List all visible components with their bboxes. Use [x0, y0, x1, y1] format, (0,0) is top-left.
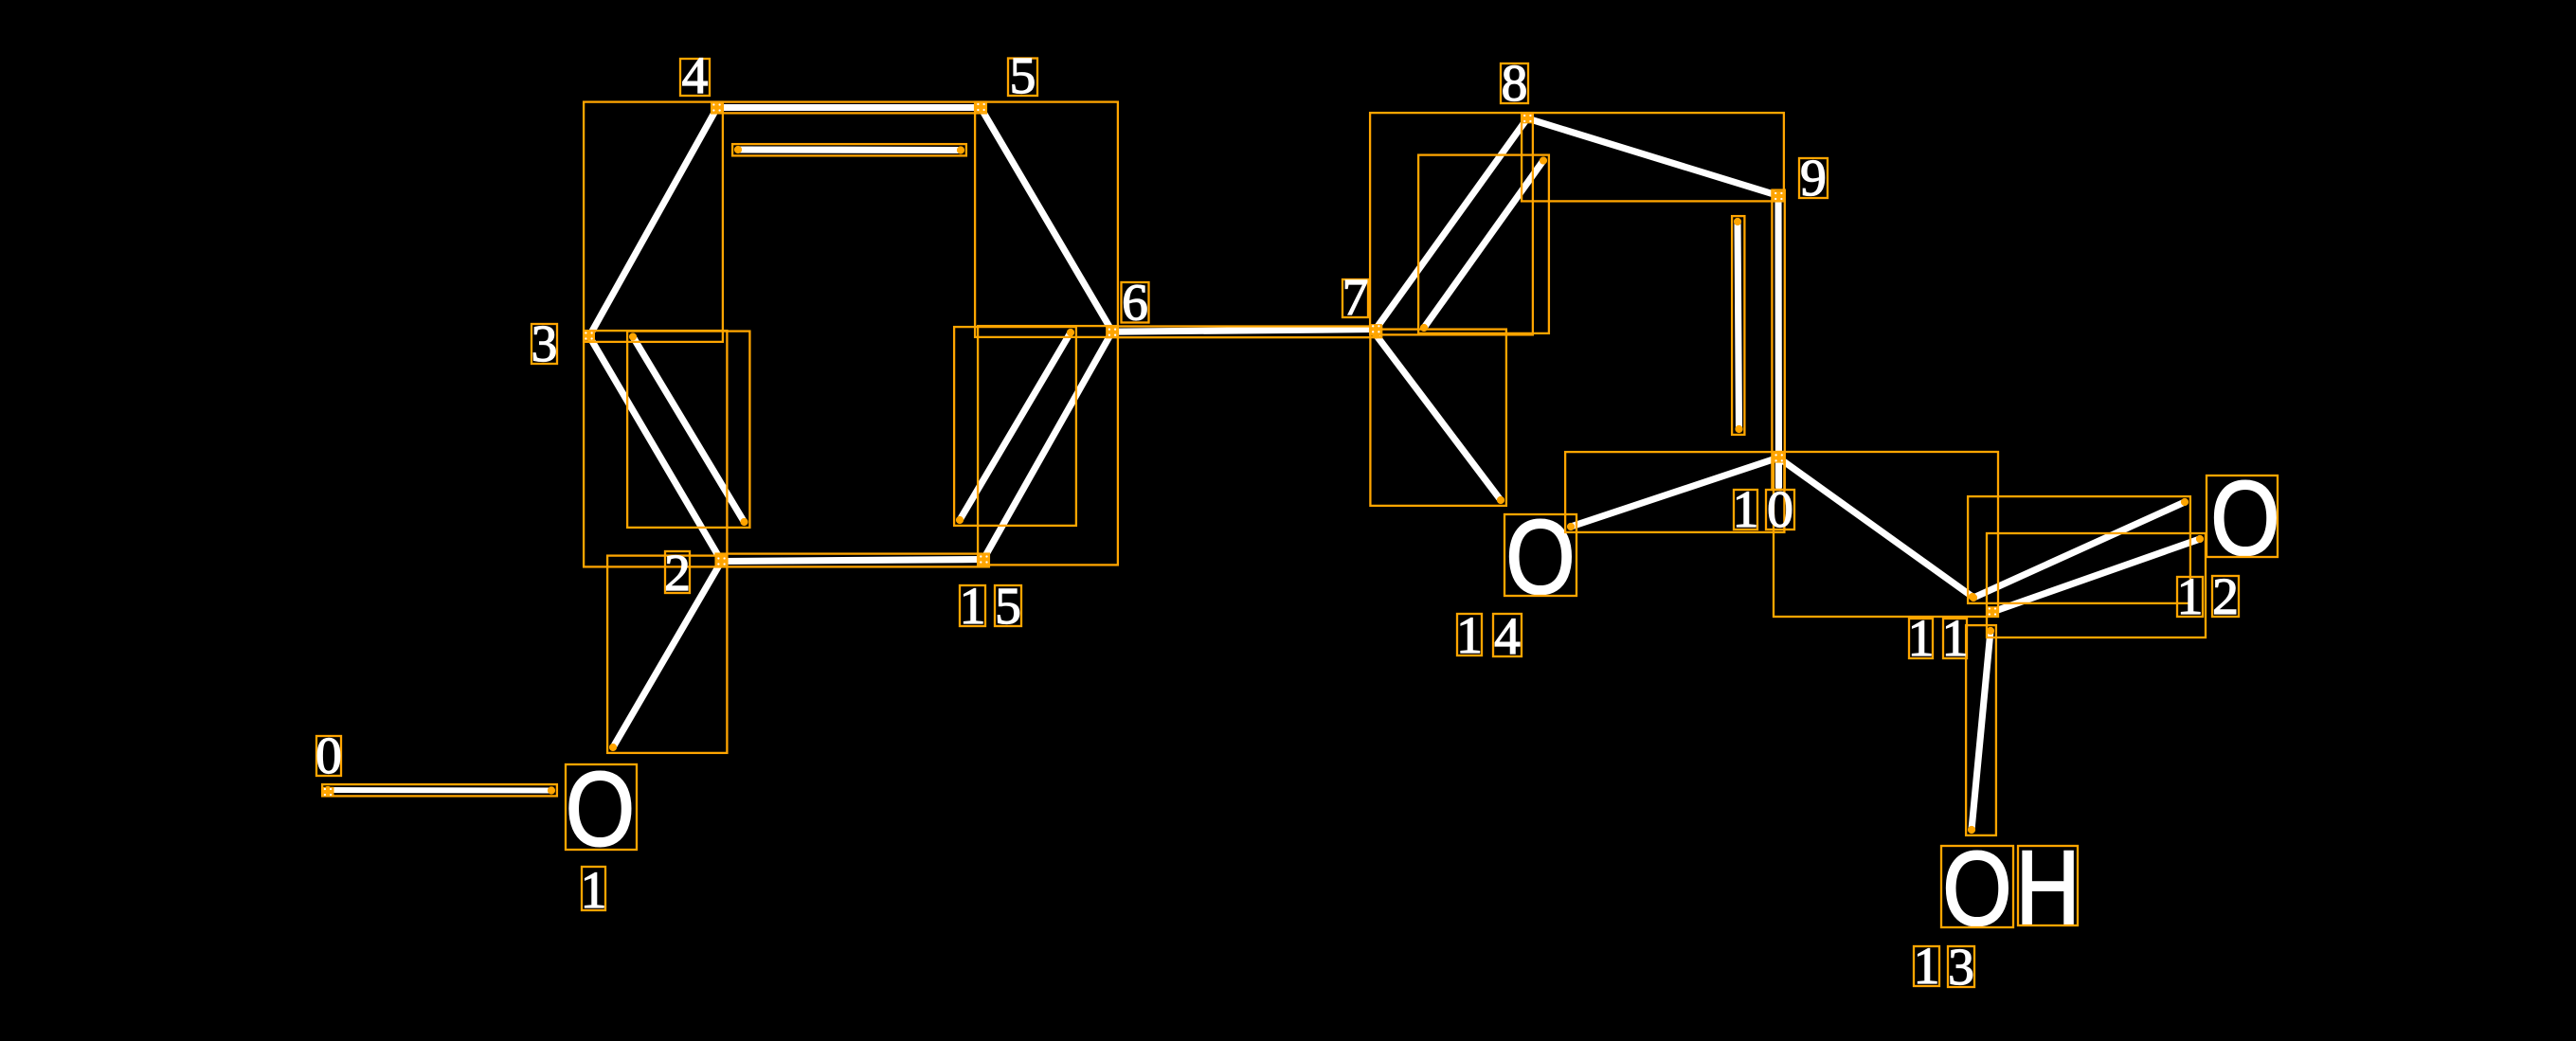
atom 11 marker: [1986, 606, 1998, 617]
svg-text:1: 1: [1733, 481, 1759, 539]
svg-text:1: 1: [581, 862, 607, 920]
bond 11=O12 upper line (C=O) : orange bounding box: [1968, 496, 2190, 603]
bond 7-8 main line (furan double bond) : endpoint dots: [1372, 325, 1379, 332]
bond 8-9 (furan single bond) : endpoint dots: [1523, 115, 1531, 122]
atom 0 (methyl C) marker: [322, 787, 334, 798]
bond 10-O14 (furan C-O bond) : endpoint dots: [1774, 454, 1782, 461]
atom 3 marker: [583, 331, 595, 341]
index label 5: [1008, 59, 1037, 97]
bond 2-15 (aromatic single bond) : orange bounding box: [716, 554, 989, 567]
index label 11: [1909, 619, 1933, 658]
atom 10 marker: [1773, 453, 1785, 463]
bond 10-O14 (furan C-O bond) : white line: [1571, 458, 1779, 527]
bond 11-OH (C-OH single bond) : white line: [1972, 631, 1991, 830]
bond 3-4 (aromatic single bond) : orange bounding box: [584, 102, 723, 342]
bond 7-8 inner line : white line: [1424, 161, 1543, 329]
svg-text:8: 8: [1502, 55, 1528, 113]
bond 11=O12 lower line (C=O) : orange bounding box: [1987, 533, 2206, 637]
bond 11=O12 lower line (C=O) : white line: [1992, 539, 2200, 612]
atom 15 marker: [978, 554, 990, 565]
svg-text:1: 1: [1456, 607, 1483, 665]
bond 8-9 (furan single bond) : orange bounding box: [1522, 113, 1784, 201]
bond 5-6 (aromatic single bond) : orange bounding box: [975, 102, 1118, 337]
bond 11=O12 lower line (C=O) : endpoint dots: [1989, 608, 1996, 616]
atom 14 label O (furan oxygen) : orange bounding box: [1504, 514, 1576, 596]
atom 2 marker: [715, 556, 728, 566]
bond 4-5 main line (aromatic double bond) : endpoint dots: [713, 103, 721, 111]
bond 5-6 (aromatic single bond) : endpoint dots: [977, 103, 984, 111]
index label 14: [1457, 614, 1482, 655]
atom 13 label H of OH (hydroxyl) : orange bounding box: [2018, 846, 2078, 925]
bond 7-8 main line (furan double bond) : white line: [1376, 118, 1527, 330]
index label 7: [1342, 279, 1368, 317]
bond 2-3 main line (aromatic double bond) : endpoint dots: [585, 332, 593, 340]
bond 9-10 inner line : white line: [1738, 222, 1739, 429]
bond 0-1 (CH3-O single bond) : endpoint dots: [324, 786, 332, 794]
svg-text:1: 1: [960, 578, 986, 636]
bond 2-3 main line (aromatic double bond) : white line: [589, 336, 722, 562]
bond 6-15 main line (aromatic double bond) : white line: [983, 332, 1112, 560]
svg-text:5: 5: [995, 578, 1021, 636]
svg-text:4: 4: [682, 47, 709, 105]
index label 0: [316, 736, 341, 776]
bond 2-3 inner line : white line: [633, 337, 745, 523]
index label 8: [1501, 63, 1528, 103]
bond 9-10 main line (furan double bond) : orange bounding box: [1772, 190, 1784, 490]
svg-text:1: 1: [1908, 610, 1935, 668]
index label 10: [1734, 490, 1757, 529]
index label 4: [680, 59, 710, 96]
bond 4-5 inner line : white line: [738, 146, 961, 153]
bond 2-3 inner line : orange bounding box: [627, 332, 749, 528]
svg-text:2: 2: [664, 545, 691, 602]
svg-text:6: 6: [1122, 275, 1148, 332]
index label 1: [582, 867, 605, 910]
svg-text:O: O: [1942, 830, 2011, 947]
bond 7-8 inner line : orange bounding box: [1418, 155, 1549, 333]
bond 10-11 (C-C single bond) : endpoint dots: [1774, 454, 1782, 461]
bond 2-3 main line (aromatic double bond) : orange bounding box: [584, 331, 727, 566]
bond 4-5 main line (aromatic double bond) : white line: [717, 104, 981, 111]
bond 11-OH (C-OH single bond) : endpoint dots: [1987, 627, 1994, 635]
bond 4-5 inner line : orange bounding box: [732, 144, 966, 155]
atom 4 marker: [711, 102, 723, 113]
atom 5 marker: [975, 102, 987, 113]
index label 3: [531, 324, 557, 364]
bond 6-15 inner line : white line: [960, 332, 1071, 520]
svg-text:0: 0: [1767, 481, 1793, 539]
svg-text:3: 3: [1948, 939, 1974, 996]
svg-text:1: 1: [1914, 938, 1940, 996]
svg-text:O: O: [2210, 459, 2279, 577]
bond 10-O14 (furan C-O bond) : orange bounding box: [1565, 452, 1784, 532]
bond 1-2 (O-C aryl single bond) : endpoint dots: [717, 557, 725, 565]
bond 9-10 main line (furan double bond) : endpoint dots: [1774, 191, 1782, 199]
svg-text:3: 3: [531, 315, 558, 373]
atom 12 label O (carbonyl oxygen) : orange bounding box: [2207, 476, 2278, 557]
atom 9 marker: [1773, 191, 1785, 202]
bond 2-3 inner line : endpoint dots: [629, 332, 637, 340]
atom 8 marker: [1522, 114, 1534, 124]
bond 2-15 (aromatic single bond) : endpoint dots: [717, 557, 725, 565]
bond 9-10 inner line : orange bounding box: [1732, 216, 1744, 435]
bond 6-7 (biaryl single bond) : endpoint dots: [1108, 328, 1116, 335]
bond 7-8 main line (furan double bond) : orange bounding box: [1370, 113, 1533, 334]
bond 3-4 (aromatic single bond) : endpoint dots: [585, 332, 593, 340]
index label 15: [960, 585, 985, 626]
bond 8-9 (furan single bond) : white line: [1527, 118, 1778, 196]
bond 6-15 main line (aromatic double bond) : orange bounding box: [978, 326, 1118, 565]
index label 9: [1799, 158, 1828, 198]
bond 0-1 (CH3-O single bond) : white line: [328, 787, 551, 794]
svg-text:1: 1: [1942, 610, 1969, 668]
bond O14-7 (furan O-C bond) : endpoint dots: [1497, 496, 1504, 504]
index label 2: [665, 551, 690, 593]
svg-text:5: 5: [1010, 47, 1036, 105]
bond 9-10 inner line : endpoint dots: [1734, 218, 1741, 225]
bond 7-8 inner line : endpoint dots: [1420, 324, 1428, 332]
svg-text:0: 0: [315, 727, 342, 785]
svg-text:7: 7: [1342, 269, 1369, 327]
atom 7 marker: [1370, 324, 1382, 334]
index label 12: [2177, 577, 2203, 617]
svg-text:2: 2: [2212, 568, 2239, 626]
atom 6 marker: [1107, 327, 1119, 337]
bond 10-11 (C-C single bond) : white line: [1779, 458, 1973, 597]
atom 1 label O (ether oxygen) : orange bounding box: [566, 764, 637, 850]
bond O14-7 (furan O-C bond) : orange bounding box: [1370, 330, 1506, 506]
bond 6-15 inner line : orange bounding box: [954, 327, 1076, 526]
svg-text:1: 1: [2177, 568, 2204, 626]
index label 6: [1122, 282, 1149, 323]
bond 4-5 main line (aromatic double bond) : orange bounding box: [712, 102, 986, 114]
bond 11=O12 upper line (C=O) : endpoint dots: [1970, 594, 1977, 601]
bond 11-OH (C-OH single bond) : orange bounding box: [1966, 625, 1996, 835]
bond 3-4 (aromatic single bond) : white line: [589, 108, 717, 337]
bond 4-5 inner line : endpoint dots: [734, 146, 742, 153]
bond 2-15 (aromatic single bond) : white line: [722, 560, 984, 562]
bond 6-15 main line (aromatic double bond) : endpoint dots: [1108, 328, 1116, 335]
svg-text:9: 9: [1800, 150, 1827, 207]
atom 13 label O of OH (hydroxyl) : orange bounding box: [1941, 846, 2013, 927]
bond 5-6 (aromatic single bond) : white line: [981, 108, 1112, 332]
bond 1-2 (O-C aryl single bond) : white line: [613, 562, 722, 748]
bond 6-7 (biaryl single bond) : white line: [1112, 330, 1376, 332]
bond 0-1 (CH3-O single bond) : orange bounding box: [322, 784, 557, 796]
bond 1-2 (O-C aryl single bond) : orange bounding box: [607, 556, 727, 753]
bond 11=O12 upper line (C=O) : white line: [1973, 502, 2185, 598]
bond 9-10 main line (furan double bond) : white line: [1774, 196, 1782, 488]
bond 10-11 (C-C single bond) : orange bounding box: [1774, 452, 1998, 617]
index label 13: [1914, 946, 1939, 986]
bond O14-7 (furan O-C bond) : white line: [1376, 335, 1501, 501]
bond 6-7 (biaryl single bond) : orange bounding box: [1107, 327, 1381, 338]
svg-text:4: 4: [1494, 608, 1521, 666]
bond 6-15 inner line : endpoint dots: [1067, 329, 1074, 336]
